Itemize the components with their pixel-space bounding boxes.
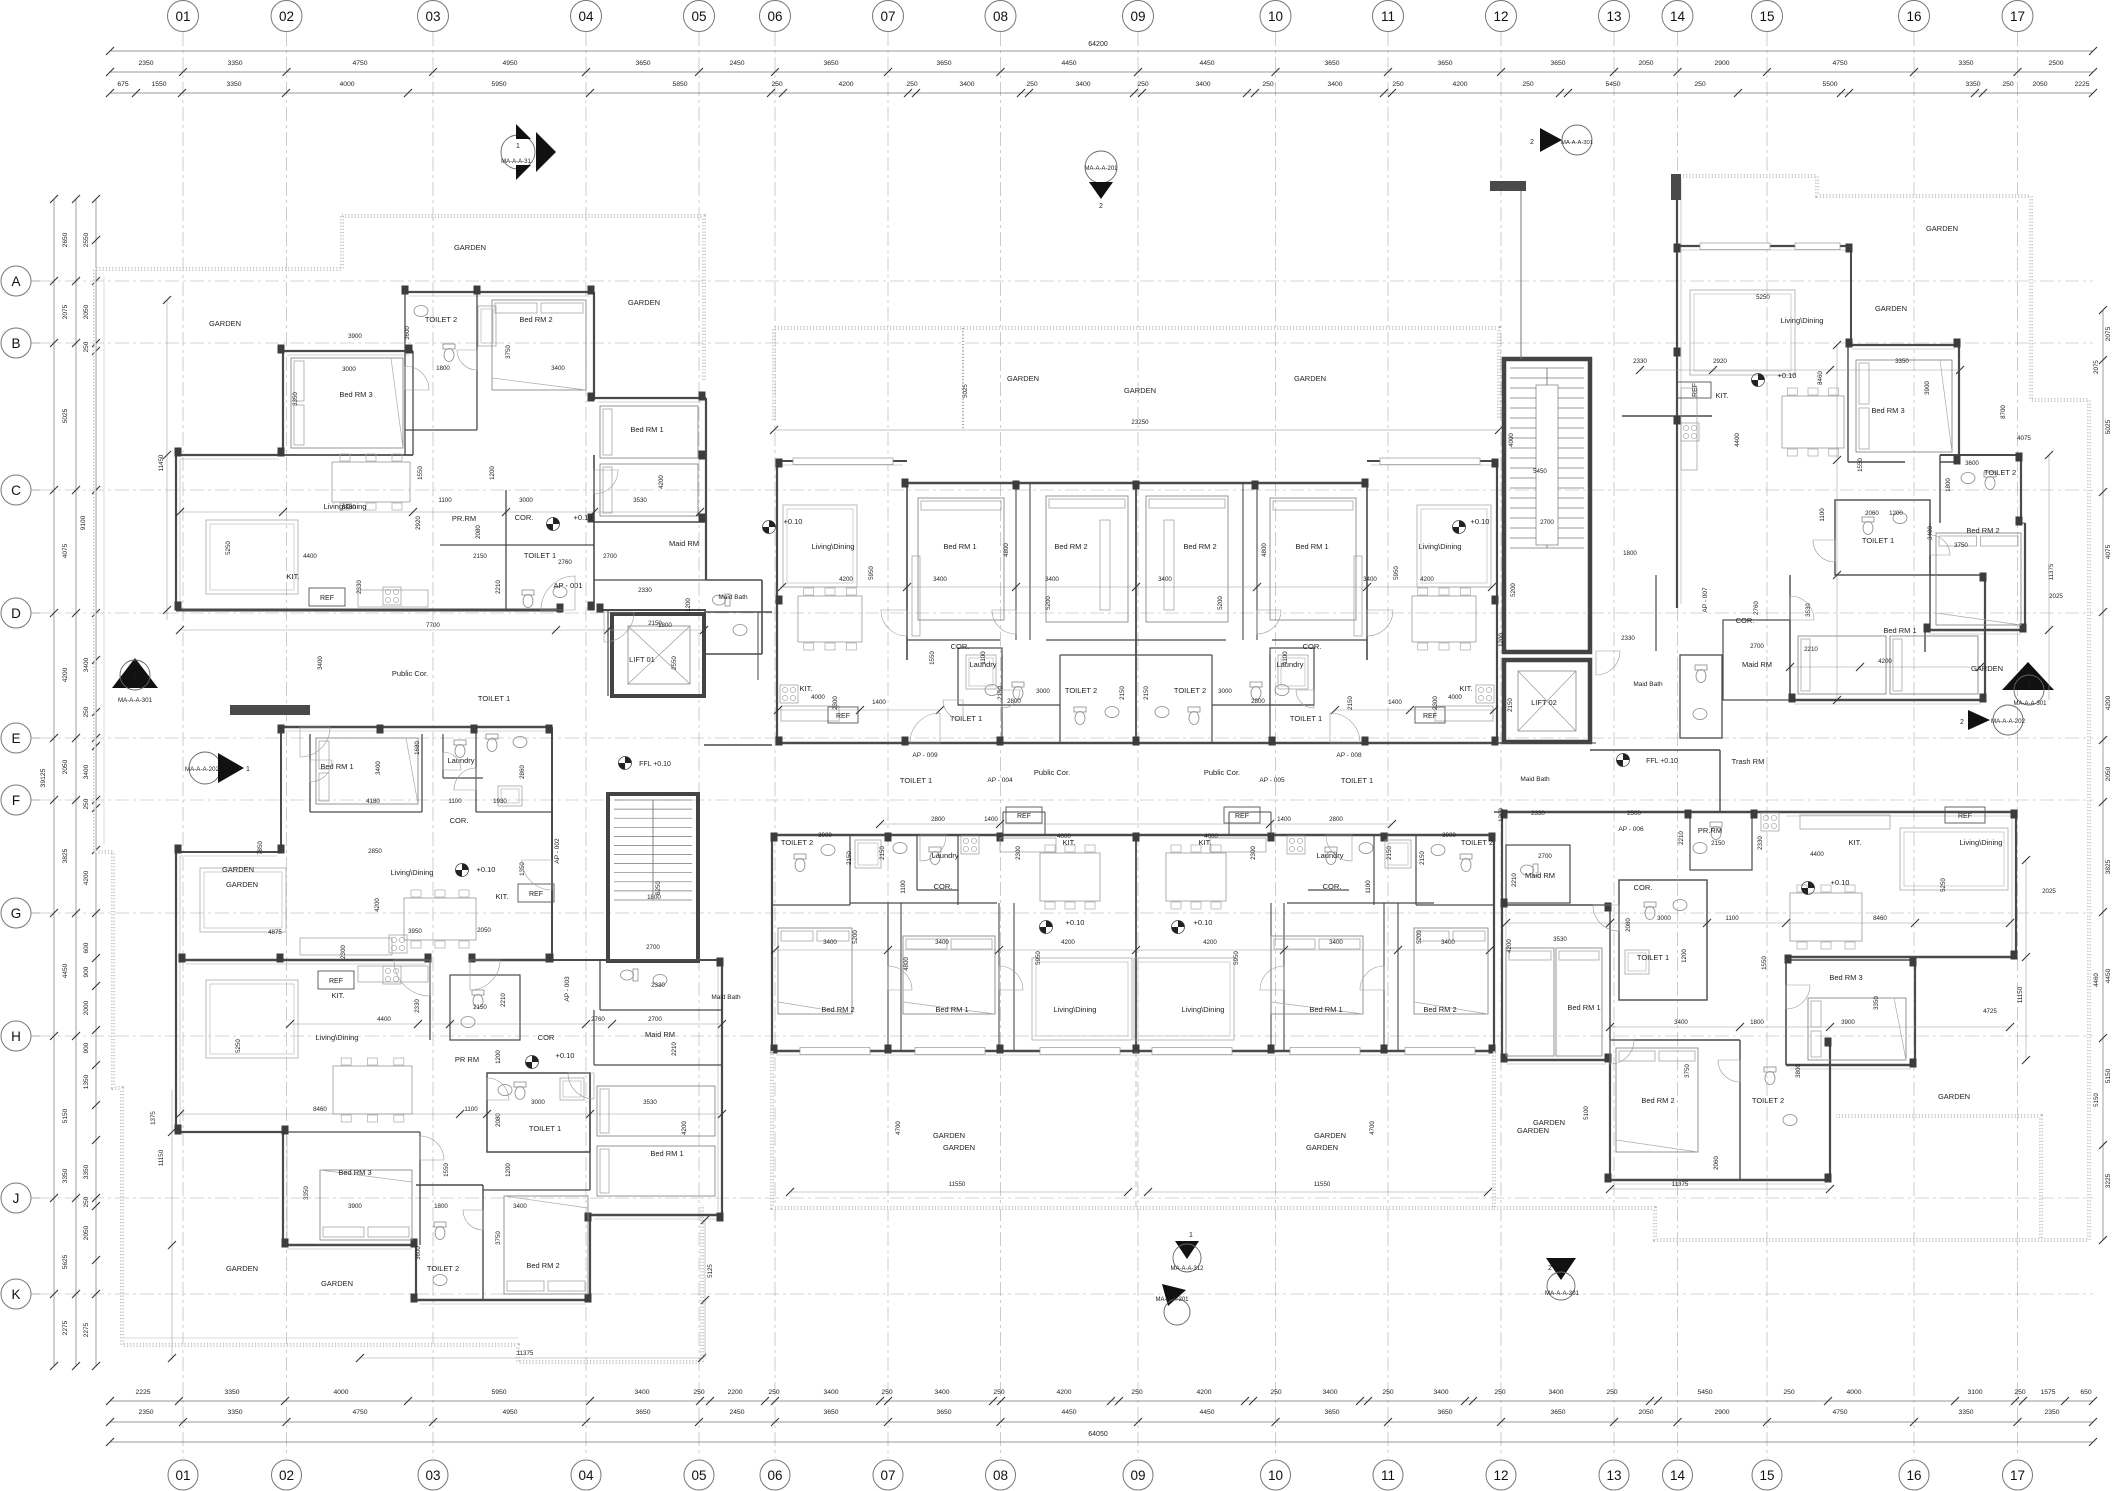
svg-text:K: K (11, 1287, 20, 1302)
svg-text:Living\Dining: Living\Dining (1054, 1005, 1097, 1014)
svg-text:02: 02 (279, 1468, 294, 1483)
svg-text:2200: 2200 (727, 1389, 742, 1396)
svg-text:250: 250 (83, 706, 90, 717)
svg-text:1: 1 (1189, 1232, 1193, 1239)
svg-text:250: 250 (1137, 81, 1149, 88)
svg-text:3900: 3900 (348, 333, 362, 340)
svg-text:23250: 23250 (1131, 419, 1149, 426)
svg-text:2050: 2050 (62, 759, 69, 774)
svg-text:2: 2 (1960, 719, 1964, 726)
AP-004/005 bedroom partitions (850, 902, 997, 904)
svg-text:MA-A-A-301: MA-A-A-301 (1545, 1290, 1580, 1297)
svg-text:A: A (11, 274, 20, 289)
section marker MA-A-A-201 bottom (1162, 1284, 1186, 1306)
svg-text:J: J (13, 1191, 20, 1206)
internal dim lines left block (180, 511, 700, 513)
svg-text:COR.: COR. (951, 642, 970, 651)
svg-text:1550: 1550 (417, 466, 424, 480)
apartment AP-006 outer walls (1502, 811, 2016, 814)
window boxes center block top wall (793, 458, 893, 465)
AP-004/005 toilet band partitions (849, 835, 851, 905)
svg-text:D: D (11, 606, 21, 621)
svg-text:4000: 4000 (811, 694, 825, 701)
svg-text:Maid RM: Maid RM (669, 539, 699, 548)
svg-text:MA-A-A-312: MA-A-A-312 (1170, 1266, 1204, 1272)
svg-text:04: 04 (578, 1468, 594, 1483)
svg-text:250: 250 (2002, 81, 2014, 88)
AP-009/008 columns (776, 459, 783, 468)
svg-text:Bed RM 3: Bed RM 3 (1829, 973, 1862, 982)
svg-text:2550: 2550 (671, 656, 678, 670)
svg-text:2450: 2450 (729, 1409, 744, 1416)
svg-text:2275: 2275 (83, 1322, 90, 1337)
svg-text:250: 250 (83, 341, 90, 352)
svg-text:TOILET 1: TOILET 1 (478, 694, 510, 703)
svg-text:3400: 3400 (1322, 1389, 1337, 1396)
svg-text:Bed RM 1: Bed RM 1 (1309, 1005, 1342, 1014)
svg-text:KIT.: KIT. (1460, 684, 1473, 693)
svg-text:3400: 3400 (83, 657, 90, 672)
svg-text:250: 250 (1783, 1389, 1795, 1396)
svg-text:250: 250 (1382, 1389, 1394, 1396)
svg-text:2300: 2300 (1432, 696, 1439, 710)
svg-text:250: 250 (1522, 81, 1534, 88)
grid bubbles bottom (168, 1460, 198, 1490)
svg-text:MA-A-A-201: MA-A-A-201 (1084, 166, 1118, 172)
svg-text:2700: 2700 (1750, 643, 1764, 650)
AP-006 furniture (1900, 828, 2008, 890)
svg-text:12: 12 (1493, 9, 1508, 24)
svg-text:675: 675 (117, 81, 129, 88)
svg-text:3400: 3400 (959, 81, 974, 88)
svg-text:Maid Bath: Maid Bath (718, 594, 748, 601)
svg-text:2210: 2210 (1511, 873, 1518, 887)
svg-text:2700: 2700 (603, 553, 617, 560)
apartment AP-002 outer walls (278, 726, 552, 729)
top dimension line overall 64200 (110, 50, 2093, 52)
svg-text:2210: 2210 (671, 1042, 678, 1056)
svg-text:Living\Dining: Living\Dining (1781, 316, 1824, 325)
svg-text:11550: 11550 (949, 1181, 966, 1188)
svg-text:4180: 4180 (366, 798, 380, 805)
AP-003 columns (179, 954, 186, 963)
svg-text:COR.: COR. (450, 816, 469, 825)
svg-text:Public Cor.: Public Cor. (392, 669, 428, 678)
svg-text:4200: 4200 (1203, 939, 1217, 946)
garden boundary AP-006 bottom (1494, 1208, 2041, 1240)
svg-text:2300: 2300 (340, 945, 347, 959)
svg-text:2060: 2060 (1713, 1156, 1720, 1170)
svg-text:3350: 3350 (292, 392, 299, 406)
svg-text:GARDEN: GARDEN (1938, 1092, 1970, 1101)
svg-text:2800: 2800 (1251, 698, 1265, 705)
svg-text:Public Cor.: Public Cor. (1034, 768, 1070, 777)
svg-text:COR.: COR. (1303, 642, 1322, 651)
svg-text:4460: 4460 (2093, 973, 2100, 987)
garden boundary right block (1683, 176, 2089, 1240)
svg-text:C: C (11, 483, 21, 498)
svg-text:3000: 3000 (1036, 688, 1050, 695)
svg-text:2900: 2900 (1714, 1409, 1729, 1416)
section marker MA-A-A-301 left (112, 658, 158, 688)
svg-text:5950: 5950 (491, 1389, 506, 1396)
svg-text:1: 1 (133, 674, 137, 681)
svg-text:3350: 3350 (227, 60, 242, 67)
svg-text:2050: 2050 (83, 1225, 90, 1240)
svg-text:3000: 3000 (818, 832, 832, 839)
svg-text:2150: 2150 (1711, 840, 1725, 847)
svg-text:4200: 4200 (1056, 1389, 1071, 1396)
svg-text:GARDEN: GARDEN (1294, 374, 1326, 383)
svg-text:2330: 2330 (638, 587, 652, 594)
svg-text:4200: 4200 (1420, 576, 1434, 583)
svg-text:2800: 2800 (1007, 698, 1021, 705)
AP-009/008 toilet band partitions (958, 648, 1002, 705)
svg-text:3000: 3000 (1657, 915, 1671, 922)
svg-text:4200: 4200 (658, 475, 665, 489)
svg-text:REF: REF (1017, 813, 1031, 820)
svg-text:3400: 3400 (1927, 526, 1934, 540)
right block top bar (1490, 181, 1526, 191)
svg-text:3950: 3950 (408, 928, 422, 935)
svg-text:2150: 2150 (1143, 686, 1150, 700)
svg-text:Maid RM: Maid RM (1525, 871, 1555, 880)
svg-text:COR: COR (538, 1033, 555, 1042)
svg-text:AP - 002: AP - 002 (554, 838, 561, 864)
svg-text:2350: 2350 (138, 1409, 153, 1416)
svg-text:G: G (11, 906, 22, 921)
svg-text:2650: 2650 (62, 232, 69, 247)
svg-text:LIFT 02: LIFT 02 (1531, 698, 1557, 707)
svg-text:Bed RM 3: Bed RM 3 (339, 390, 372, 399)
svg-text:11450: 11450 (158, 454, 165, 471)
svg-text:06: 06 (767, 9, 782, 24)
svg-text:2150: 2150 (473, 553, 487, 560)
svg-text:2500: 2500 (1627, 810, 1641, 817)
apartment AP-001 outer walls (405, 291, 594, 293)
svg-text:15: 15 (1759, 9, 1774, 24)
section marker MA-A-A-301 right (2002, 662, 2054, 690)
svg-text:3350: 3350 (226, 81, 241, 88)
svg-text:TOILET 2: TOILET 2 (1065, 686, 1097, 695)
svg-text:2760: 2760 (558, 559, 572, 566)
svg-text:4000: 4000 (1057, 833, 1071, 840)
svg-text:1100: 1100 (464, 1106, 478, 1113)
svg-text:1: 1 (246, 766, 250, 773)
svg-text:3225: 3225 (2105, 1173, 2112, 1188)
svg-text:GARDEN: GARDEN (1007, 374, 1039, 383)
svg-text:4000: 4000 (333, 1389, 348, 1396)
svg-text:REF: REF (1235, 813, 1249, 820)
svg-text:4450: 4450 (2105, 968, 2112, 983)
corridor walls near stairs (552, 959, 722, 961)
svg-text:5200: 5200 (1045, 596, 1052, 610)
svg-text:4700: 4700 (1369, 1121, 1376, 1135)
svg-text:MA-A-A-202: MA-A-A-202 (1991, 718, 2026, 725)
svg-text:REF: REF (836, 713, 850, 720)
svg-text:4200: 4200 (1196, 1389, 1211, 1396)
svg-text:250: 250 (693, 1389, 705, 1396)
svg-text:17: 17 (2010, 1468, 2025, 1483)
svg-text:4200: 4200 (1452, 81, 1467, 88)
svg-text:Bed RM 3: Bed RM 3 (1871, 406, 1904, 415)
svg-text:AP - 008: AP - 008 (1336, 752, 1362, 759)
svg-text:14: 14 (1670, 9, 1686, 24)
left block balcony wall (230, 705, 310, 715)
svg-text:AP - 007: AP - 007 (1702, 587, 1709, 613)
svg-text:900: 900 (83, 966, 90, 977)
svg-text:1550: 1550 (151, 81, 166, 88)
svg-text:5250: 5250 (225, 541, 232, 555)
left dimension column 2 (75, 199, 77, 1366)
svg-text:Bed RM 1: Bed RM 1 (943, 542, 976, 551)
svg-text:1400: 1400 (872, 699, 886, 706)
svg-text:2760: 2760 (1753, 601, 1760, 615)
svg-text:COR.: COR. (1634, 883, 1653, 892)
svg-text:5250: 5250 (1940, 878, 1947, 892)
svg-text:17: 17 (2010, 9, 2025, 24)
svg-text:4200: 4200 (681, 1121, 688, 1135)
svg-text:AP - 004: AP - 004 (987, 777, 1013, 784)
section marker MA-A-A-202 left (189, 752, 221, 784)
svg-text:11375: 11375 (1672, 1181, 1689, 1188)
svg-text:13: 13 (1606, 1468, 1621, 1483)
svg-text:250: 250 (1026, 81, 1038, 88)
svg-text:2300: 2300 (832, 696, 839, 710)
svg-text:AP - 005: AP - 005 (1259, 777, 1285, 784)
svg-text:8700: 8700 (2000, 405, 2007, 419)
terrace edge lines left (122, 1337, 518, 1339)
svg-text:3350: 3350 (227, 1409, 242, 1416)
svg-text:Maid Bath: Maid Bath (1520, 776, 1550, 783)
svg-text:2: 2 (1099, 203, 1103, 210)
svg-text:2330: 2330 (1757, 836, 1764, 850)
svg-text:3900: 3900 (348, 1203, 362, 1210)
lift 02 (1504, 660, 1590, 742)
svg-text:Bed RM 1: Bed RM 1 (1883, 626, 1916, 635)
svg-text:+0.10: +0.10 (1194, 918, 1213, 927)
svg-text:3350: 3350 (1895, 358, 1909, 365)
svg-text:Maid Bath: Maid Bath (1633, 681, 1663, 688)
door swing arcs (541, 576, 575, 610)
REF nook walls public corridor (1002, 812, 1004, 835)
svg-text:1550: 1550 (1857, 458, 1864, 472)
svg-text:2025: 2025 (2049, 593, 2063, 600)
garden boundary left block (342, 216, 704, 380)
svg-text:3600: 3600 (404, 326, 411, 340)
svg-text:2900: 2900 (1714, 60, 1729, 67)
svg-text:4000: 4000 (1204, 833, 1218, 840)
section marker MA-A-A-202 right (1993, 705, 2023, 735)
svg-text:COR.: COR. (1323, 882, 1342, 891)
svg-text:2330: 2330 (414, 999, 421, 1013)
svg-text:3750: 3750 (1954, 542, 1968, 549)
vertical grid lines 01-17 (182, 32, 184, 1458)
svg-text:2350: 2350 (138, 60, 153, 67)
svg-text:7700: 7700 (426, 622, 440, 629)
svg-text:Trash RM: Trash RM (1732, 757, 1765, 766)
svg-text:5200: 5200 (1510, 583, 1517, 597)
svg-text:39125: 39125 (40, 768, 47, 787)
svg-text:1100: 1100 (438, 497, 452, 504)
svg-text:TOILET 1: TOILET 1 (1637, 953, 1669, 962)
svg-text:16: 16 (1906, 1468, 1921, 1483)
svg-text:MA-A-A-31: MA-A-A-31 (501, 159, 531, 165)
svg-text:1800: 1800 (436, 365, 450, 372)
svg-text:05: 05 (691, 1468, 706, 1483)
svg-text:2330: 2330 (356, 580, 363, 594)
svg-text:H: H (11, 1029, 21, 1044)
svg-text:2225: 2225 (135, 1389, 150, 1396)
svg-text:+0.10: +0.10 (477, 865, 496, 874)
svg-text:5250: 5250 (235, 1039, 242, 1053)
svg-text:8460: 8460 (1873, 915, 1887, 922)
svg-text:Bed RM 1: Bed RM 1 (320, 762, 353, 771)
svg-text:TOILET 2: TOILET 2 (427, 1264, 459, 1273)
svg-text:REF: REF (1423, 713, 1437, 720)
svg-text:1680: 1680 (414, 741, 421, 755)
svg-text:250: 250 (881, 1389, 893, 1396)
svg-text:TOILET 2: TOILET 2 (425, 315, 457, 324)
svg-text:5950: 5950 (491, 81, 506, 88)
svg-text:F: F (12, 793, 20, 808)
AP-006 partitions (1502, 904, 1610, 906)
right dimension column (2102, 310, 2104, 1240)
svg-text:MA-A-A-201: MA-A-A-201 (1155, 1297, 1189, 1303)
svg-text:REF: REF (320, 595, 334, 602)
svg-text:3650: 3650 (936, 1409, 951, 1416)
svg-text:3400: 3400 (551, 365, 565, 372)
svg-text:KIT.: KIT. (800, 684, 813, 693)
svg-text:4450: 4450 (1199, 1409, 1214, 1416)
svg-text:16: 16 (1906, 9, 1921, 24)
svg-text:1: 1 (2027, 682, 2031, 689)
svg-text:2075: 2075 (2105, 326, 2112, 341)
svg-text:PR.RM: PR.RM (1698, 826, 1722, 835)
section marker MA-A-A-311 top (501, 135, 535, 169)
svg-text:GARDEN: GARDEN (628, 298, 660, 307)
svg-text:PR.RM: PR.RM (452, 514, 476, 523)
bottom dimension row B (110, 1421, 2093, 1423)
svg-text:2700: 2700 (1538, 853, 1552, 860)
svg-text:AP - 006: AP - 006 (1618, 826, 1644, 833)
svg-text:5250: 5250 (1756, 294, 1770, 301)
svg-text:TOILET 2: TOILET 2 (1752, 1096, 1784, 1105)
svg-text:10: 10 (1268, 1468, 1283, 1483)
svg-text:250: 250 (1270, 1389, 1282, 1396)
svg-text:5450: 5450 (1533, 468, 1547, 475)
svg-text:FFL +0.10: FFL +0.10 (639, 761, 671, 768)
svg-text:TOILET 2: TOILET 2 (781, 838, 813, 847)
svg-text:1800: 1800 (434, 1203, 448, 1210)
svg-text:15: 15 (1759, 1468, 1774, 1483)
svg-text:250: 250 (906, 81, 918, 88)
svg-text:250: 250 (83, 1196, 90, 1207)
svg-text:09: 09 (1130, 1468, 1145, 1483)
svg-text:2700: 2700 (646, 944, 660, 951)
svg-text:AP - 003: AP - 003 (564, 976, 571, 1002)
svg-text:3400: 3400 (1158, 576, 1172, 583)
svg-text:4200: 4200 (2105, 695, 2112, 710)
svg-text:250: 250 (1131, 1389, 1143, 1396)
svg-text:4000: 4000 (339, 81, 354, 88)
apartment AP-009 AP-008 outer walls (777, 460, 907, 462)
svg-text:GARDEN: GARDEN (1306, 1143, 1338, 1152)
stairs left block (608, 794, 698, 961)
svg-text:3750: 3750 (505, 345, 512, 359)
svg-text:3350: 3350 (303, 1186, 310, 1200)
svg-text:04: 04 (578, 9, 594, 24)
svg-text:3000: 3000 (531, 1099, 545, 1106)
svg-text:2: 2 (1530, 139, 1534, 146)
svg-text:Bed RM 1: Bed RM 1 (630, 425, 663, 434)
svg-text:5625: 5625 (62, 1254, 69, 1269)
lift 01 (612, 614, 704, 696)
grid bubbles top (168, 1, 199, 32)
AP-009/008 bedroom partitions (906, 483, 908, 660)
AP-007 furniture (1690, 290, 1795, 375)
svg-text:3530: 3530 (1553, 936, 1567, 943)
svg-text:TOILET 2: TOILET 2 (1174, 686, 1206, 695)
svg-text:2225: 2225 (2074, 81, 2089, 88)
svg-text:2080: 2080 (495, 1113, 502, 1127)
svg-text:2150: 2150 (1119, 686, 1126, 700)
svg-text:250: 250 (768, 1389, 780, 1396)
svg-text:5200: 5200 (1416, 930, 1423, 944)
svg-text:KIT.: KIT. (496, 892, 509, 901)
svg-text:650: 650 (2080, 1389, 2092, 1396)
svg-text:3650: 3650 (1550, 1409, 1565, 1416)
svg-text:2: 2 (1548, 1265, 1552, 1272)
svg-text:Living\Dining: Living\Dining (1419, 542, 1462, 551)
svg-text:2075: 2075 (2093, 360, 2100, 374)
svg-text:GARDEN: GARDEN (209, 319, 241, 328)
svg-text:2080: 2080 (1625, 918, 1632, 932)
svg-text:3400: 3400 (1433, 1389, 1448, 1396)
svg-text:12: 12 (1493, 1468, 1508, 1483)
AP-001 columns (402, 286, 409, 295)
svg-text:5100: 5100 (1583, 1106, 1590, 1120)
svg-text:3650: 3650 (635, 60, 650, 67)
svg-text:2150: 2150 (879, 846, 886, 860)
left dimension column outer total 39125 (53, 199, 55, 1366)
svg-text:Living\Dining: Living\Dining (391, 868, 434, 877)
svg-text:1550: 1550 (1761, 956, 1768, 970)
svg-text:4200: 4200 (839, 576, 853, 583)
svg-text:Maid RM: Maid RM (645, 1030, 675, 1039)
AP-004 furniture (778, 928, 852, 1014)
svg-text:KIT.: KIT. (287, 572, 300, 581)
svg-text:2050: 2050 (477, 927, 491, 934)
svg-text:Public Cor.: Public Cor. (1204, 768, 1240, 777)
svg-text:3650: 3650 (823, 1409, 838, 1416)
svg-text:2920: 2920 (1713, 358, 1727, 365)
svg-text:GARDEN: GARDEN (222, 865, 254, 874)
svg-text:TOILET 1: TOILET 1 (1290, 714, 1322, 723)
svg-text:3400: 3400 (933, 576, 947, 583)
svg-text:3350: 3350 (1958, 1409, 1973, 1416)
svg-text:4200: 4200 (83, 870, 90, 885)
svg-text:+0.10: +0.10 (1471, 517, 1490, 526)
svg-text:11375: 11375 (517, 1350, 534, 1357)
svg-text:11150: 11150 (2017, 986, 2024, 1003)
svg-text:2300: 2300 (1250, 846, 1257, 860)
svg-text:Bed RM 2: Bed RM 2 (519, 315, 552, 324)
svg-text:Bed RM 1: Bed RM 1 (650, 1149, 683, 1158)
svg-text:2025: 2025 (2042, 888, 2056, 895)
svg-text:600: 600 (83, 942, 90, 953)
svg-text:2060: 2060 (1865, 510, 1879, 517)
